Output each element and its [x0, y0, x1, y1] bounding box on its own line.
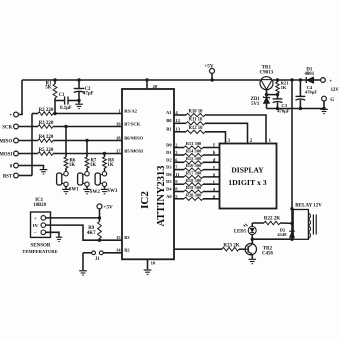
- svg-text:R23 2K: R23 2K: [223, 243, 239, 248]
- svg-text:DISPLAY: DISPLAY: [231, 166, 264, 175]
- svg-text:MOSI: MOSI: [0, 153, 12, 158]
- svg-text:B6/MISO: B6/MISO: [124, 136, 143, 141]
- svg-text:10: 10: [151, 261, 156, 266]
- resistor R17 300: [184, 171, 203, 179]
- wire R11 to display pin 2: [205, 123, 248, 143]
- ground power G: [320, 109, 328, 113]
- svg-text:1DIGIT x 3: 1DIGIT x 3: [228, 178, 267, 187]
- svg-text:e: e: [213, 166, 215, 171]
- node rail-C2: [77, 78, 80, 81]
- svg-text:d: d: [213, 158, 216, 163]
- ground SW3: [101, 189, 109, 193]
- wire R18 to display c: [203, 183, 220, 185]
- wire MISO row to pin18: [53, 140, 122, 142]
- pin 12 B0: [166, 118, 180, 123]
- terminal MISO: [14, 138, 19, 143]
- svg-text:C1: C1: [59, 93, 65, 98]
- resistor R5 220: [38, 148, 54, 155]
- wire SCK row to pin19: [53, 126, 122, 128]
- pin 8 D4: [166, 187, 178, 192]
- zener ZD1 5V1: [251, 95, 270, 109]
- svg-text:4K7: 4K7: [87, 231, 96, 236]
- resistor R15 300: [184, 156, 203, 164]
- svg-text:18: 18: [116, 136, 121, 141]
- svg-text:R13 300: R13 300: [186, 141, 202, 146]
- wire MOSI row to pin17: [53, 153, 122, 155]
- svg-text:0.1µF: 0.1µF: [60, 106, 72, 111]
- wire base node row: [267, 94, 278, 96]
- pin 5 A0: [166, 194, 178, 199]
- wire R7 tap: [86, 141, 88, 158]
- wire R14 to display b: [203, 154, 220, 156]
- resistor R10 10: [186, 109, 205, 116]
- ground ISP: [40, 170, 48, 174]
- resistor R23 2K: [174, 243, 245, 251]
- svg-text:R10 10: R10 10: [189, 109, 204, 114]
- relay RELAY 12V: [293, 204, 322, 240]
- node rail-pin20: [145, 78, 148, 81]
- svg-text:5V1: 5V1: [251, 102, 260, 107]
- svg-text:B0: B0: [166, 118, 172, 123]
- switch SW1: [57, 172, 80, 193]
- pin 3 D1: [166, 150, 178, 155]
- svg-text:R5 220: R5 220: [39, 148, 54, 153]
- node R22 tap: [290, 222, 293, 225]
- switch SW3: [95, 172, 118, 195]
- wire 0 to ground: [18, 166, 43, 170]
- wire J1 to ground: [82, 253, 84, 270]
- svg-text:SCK: SCK: [2, 126, 12, 131]
- terminal 0 (GND): [14, 163, 19, 168]
- svg-text:C9013: C9013: [259, 70, 273, 75]
- terminal RST: [14, 173, 19, 178]
- wire D3 row: [174, 169, 184, 171]
- terminal +5V top: [204, 63, 214, 80]
- svg-text:D2: D2: [166, 157, 172, 162]
- wire R6 tap: [65, 127, 67, 158]
- svg-text:12: 12: [175, 118, 180, 123]
- capacitor C2 47uF: [74, 80, 94, 104]
- wire R8 tap: [104, 154, 106, 158]
- svg-text:C3: C3: [281, 103, 287, 108]
- resistor R21 1K: [276, 80, 289, 95]
- display module 1DIGITx3: [220, 144, 277, 209]
- node relay bottom: [290, 238, 293, 241]
- svg-text:4: 4: [175, 110, 178, 115]
- svg-text:RST: RST: [3, 175, 13, 180]
- transistor TR1 C9013: [259, 65, 273, 89]
- node sensor-5V: [98, 216, 101, 219]
- wire D4 row: [174, 191, 184, 193]
- led LED1: [234, 223, 256, 239]
- resistor R16 300: [184, 163, 203, 171]
- svg-text:R19 300: R19 300: [186, 185, 202, 190]
- wire RST lead: [18, 175, 32, 177]
- svg-text:12V: 12V: [331, 88, 340, 93]
- pin 17 B5/MOSI: [116, 149, 143, 154]
- terminal SCK: [14, 124, 19, 129]
- node MOSI tap: [103, 152, 106, 155]
- svg-text:0: 0: [10, 165, 13, 170]
- svg-text:R18 300: R18 300: [186, 178, 202, 183]
- resistor R18 300: [184, 178, 203, 186]
- wire R16 to display e: [203, 169, 220, 171]
- wire +12V to relay: [291, 80, 293, 239]
- wire A1 to R10: [174, 114, 186, 116]
- svg-text:C458: C458: [262, 252, 273, 257]
- wire D1 row: [174, 154, 184, 156]
- wire MOSI lead: [18, 153, 38, 155]
- transistor TR2 C458: [245, 239, 273, 258]
- svg-text:TEMPERATURE: TEMPERATURE: [22, 249, 57, 254]
- svg-text:RELAY 12V: RELAY 12V: [295, 204, 322, 209]
- ground IC pin10: [144, 270, 152, 274]
- pin 2 D0: [166, 143, 178, 148]
- svg-text:17: 17: [116, 149, 121, 154]
- pin 7 D3: [166, 165, 178, 170]
- resistor R22 2K: [252, 217, 292, 225]
- wire MISO lead: [18, 140, 38, 142]
- svg-text:−: −: [34, 231, 37, 236]
- sensor IC1 18B20: [22, 198, 57, 254]
- svg-text:+: +: [34, 217, 37, 222]
- svg-text:b: b: [213, 151, 216, 156]
- resistor R9 4K7: [87, 218, 102, 240]
- wire sensor + row: [46, 217, 100, 219]
- node R9-DQ: [98, 239, 101, 242]
- pin 15 B3: [116, 235, 130, 240]
- terminal G: [322, 96, 335, 108]
- resistor R1 5K: [45, 80, 57, 98]
- wire B1 to R12: [174, 131, 186, 133]
- wire R12 to display pin 3: [205, 132, 226, 144]
- resistor R2 220: [38, 108, 54, 115]
- svg-text:+5V: +5V: [103, 205, 113, 211]
- resistor R3 220: [38, 121, 54, 128]
- svg-text:1K: 1K: [69, 163, 75, 168]
- wire D0 row: [174, 147, 184, 149]
- ground TR2 emitter: [249, 259, 257, 263]
- node reset junction: [53, 112, 56, 115]
- wire R10 to display pin 1: [205, 115, 266, 144]
- pin 9 D5: [166, 179, 178, 184]
- wire RST riser: [31, 114, 33, 176]
- pin 10 GND: [148, 259, 156, 269]
- wire TR2 collector row: [252, 238, 292, 240]
- wire ground rail right: [267, 108, 325, 110]
- svg-text:47µF: 47µF: [83, 92, 94, 97]
- resistor R11 10: [186, 118, 205, 125]
- svg-text:D3: D3: [166, 165, 172, 170]
- pin 19 B7/SCK: [116, 122, 141, 127]
- svg-text:18B20: 18B20: [33, 203, 46, 208]
- node relay top: [290, 207, 293, 210]
- svg-text:19: 19: [116, 122, 121, 127]
- svg-text:IC2: IC2: [139, 191, 151, 209]
- capacitor C1 0.1uF: [55, 93, 79, 111]
- svg-text:J1: J1: [95, 257, 100, 262]
- svg-text:RS/A2: RS/A2: [124, 109, 137, 114]
- svg-text:SENSOR: SENSOR: [30, 243, 50, 248]
- svg-text:R17 300: R17 300: [186, 171, 202, 176]
- wire sensor DQ: [46, 225, 122, 240]
- wire R8 to switch: [104, 168, 106, 171]
- svg-text:IC1: IC1: [35, 198, 43, 203]
- wire R15 to display d: [203, 161, 220, 163]
- wire + terminal drop: [18, 80, 22, 115]
- wire SCK lead: [18, 126, 38, 128]
- svg-text:R22 2K: R22 2K: [264, 217, 280, 222]
- svg-text:R16 300: R16 300: [186, 163, 202, 168]
- resistor R20 300: [184, 192, 203, 200]
- wire reset row left: [32, 113, 38, 115]
- svg-text:14: 14: [116, 248, 121, 253]
- svg-text:R3 220: R3 220: [39, 121, 54, 126]
- svg-text:LED1: LED1: [234, 230, 247, 235]
- wire R20 to display p: [203, 198, 220, 200]
- ground sensor: [56, 237, 62, 241]
- wire D2 row: [174, 161, 184, 163]
- svg-text:1K: 1K: [107, 163, 113, 168]
- wire R19 to display a: [203, 191, 220, 193]
- svg-text:B3: B3: [124, 235, 130, 240]
- node C1-C2 junction: [77, 99, 80, 102]
- svg-text:p: p: [213, 195, 216, 200]
- pin 11 D6: [166, 172, 180, 177]
- wire A0 row: [174, 198, 184, 200]
- op IC2 ATTINY2313 body: [122, 89, 174, 259]
- svg-text:R20 300: R20 300: [186, 192, 202, 197]
- svg-text:R12 10: R12 10: [189, 126, 204, 131]
- svg-text:470µF: 470µF: [277, 109, 290, 114]
- capacitor C3 470uF: [273, 95, 290, 114]
- node rail-R1: [53, 78, 56, 81]
- resistor R13 300: [184, 141, 203, 149]
- node rail-5Vstub: [211, 78, 214, 81]
- svg-text:A1: A1: [166, 110, 172, 115]
- svg-text:20: 20: [153, 84, 158, 89]
- resistor R6 1K: [64, 157, 76, 168]
- wire TR1 base: [266, 90, 268, 95]
- diode D2 4148 flyback: [277, 227, 294, 237]
- wire SW3 to ground: [104, 187, 106, 189]
- node C4 gnd: [299, 107, 302, 110]
- svg-text:IN: IN: [33, 223, 39, 228]
- svg-text:SW1: SW1: [69, 188, 80, 193]
- ground SW1: [62, 189, 70, 193]
- wire B0 to R11: [174, 122, 186, 124]
- wire SW2 to ground: [86, 187, 88, 189]
- pin 13 B1: [166, 127, 180, 132]
- svg-text:+5V: +5V: [204, 63, 214, 69]
- svg-text:4148: 4148: [277, 232, 287, 237]
- svg-text:G: G: [330, 98, 334, 103]
- resistor R4 220: [38, 135, 54, 142]
- wire R7 to switch: [86, 168, 88, 171]
- switch SW2: [78, 172, 101, 195]
- pin 1 RS/A2: [118, 109, 137, 114]
- svg-text:MISO: MISO: [0, 140, 12, 145]
- node LED-collector: [251, 238, 254, 241]
- resistor R7 1K: [85, 157, 97, 168]
- svg-text:A0: A0: [166, 194, 172, 199]
- svg-text:R14 300: R14 300: [186, 149, 202, 154]
- node relay feed: [290, 78, 293, 81]
- ground J1: [79, 271, 87, 275]
- wire D6 row: [174, 176, 184, 178]
- wire R13 to display f: [203, 147, 220, 149]
- svg-text:1K: 1K: [90, 163, 96, 168]
- pin 4 A1: [166, 110, 178, 115]
- diode D1 4001: [305, 67, 321, 83]
- node base-zener: [265, 93, 268, 96]
- capacitor C4 470uF: [296, 80, 318, 109]
- terminal MOSI: [14, 151, 19, 156]
- ground C2: [75, 104, 83, 108]
- svg-text:D4: D4: [166, 187, 172, 192]
- svg-text:R2 220: R2 220: [39, 108, 54, 113]
- svg-text:D6: D6: [166, 172, 172, 177]
- svg-text:B5/MOSI: B5/MOSI: [124, 149, 143, 154]
- resistor R12 10: [186, 126, 205, 133]
- node SCK tap: [64, 125, 67, 128]
- wire +5V top rail: [22, 79, 260, 81]
- node MISO tap: [85, 139, 88, 142]
- svg-text:SW3: SW3: [107, 189, 118, 194]
- wire D5 row: [174, 183, 184, 185]
- wire TR1 collector out: [273, 79, 306, 81]
- pin 6 D2: [166, 157, 178, 162]
- wire SW1 to ground: [65, 187, 67, 189]
- svg-text:13: 13: [175, 127, 180, 132]
- node R21-C3: [276, 93, 279, 96]
- node TR1-R21: [276, 78, 279, 81]
- svg-text:B2: B2: [124, 248, 130, 253]
- ground SW2: [83, 189, 91, 193]
- svg-text:R11 10: R11 10: [189, 118, 203, 123]
- terminal +5V sensor: [97, 204, 113, 218]
- svg-text:D1: D1: [166, 150, 172, 155]
- svg-text:+: +: [329, 78, 332, 84]
- pin 14 B2: [116, 248, 130, 253]
- svg-text:470µF: 470µF: [305, 90, 318, 95]
- node C3 gnd: [276, 107, 279, 110]
- svg-text:SW2: SW2: [90, 190, 101, 195]
- wire R17 to display g: [203, 176, 220, 178]
- svg-text:R4 220: R4 220: [39, 135, 54, 140]
- resistor R19 300: [184, 185, 203, 193]
- wire reset row to IC pin1: [53, 113, 122, 115]
- wire R1 bottom: [54, 98, 56, 114]
- terminal + (ISP +5V): [14, 112, 19, 117]
- svg-text:B7/SCK: B7/SCK: [124, 122, 141, 127]
- svg-text:B1: B1: [166, 127, 172, 132]
- svg-text:D5: D5: [166, 179, 172, 184]
- svg-text:D0: D0: [166, 143, 172, 148]
- svg-text:c: c: [213, 180, 215, 185]
- terminal +12V: [321, 78, 340, 94]
- pin 18 B6/MISO: [116, 136, 144, 141]
- svg-text:5K: 5K: [45, 86, 52, 91]
- node C4 top: [299, 78, 302, 81]
- svg-text:1K: 1K: [281, 85, 287, 90]
- pin 20 VCC: [147, 80, 158, 89]
- svg-text:R15 300: R15 300: [186, 156, 202, 161]
- node G gnd: [322, 107, 325, 110]
- wire sensor - to ground: [46, 232, 59, 236]
- jumper J1: [83, 251, 122, 262]
- svg-text:+: +: [9, 113, 12, 119]
- resistor R14 300: [184, 149, 203, 157]
- svg-text:4001: 4001: [305, 72, 315, 77]
- resistor R8 1K: [103, 157, 115, 168]
- wire R6 to switch: [65, 168, 67, 171]
